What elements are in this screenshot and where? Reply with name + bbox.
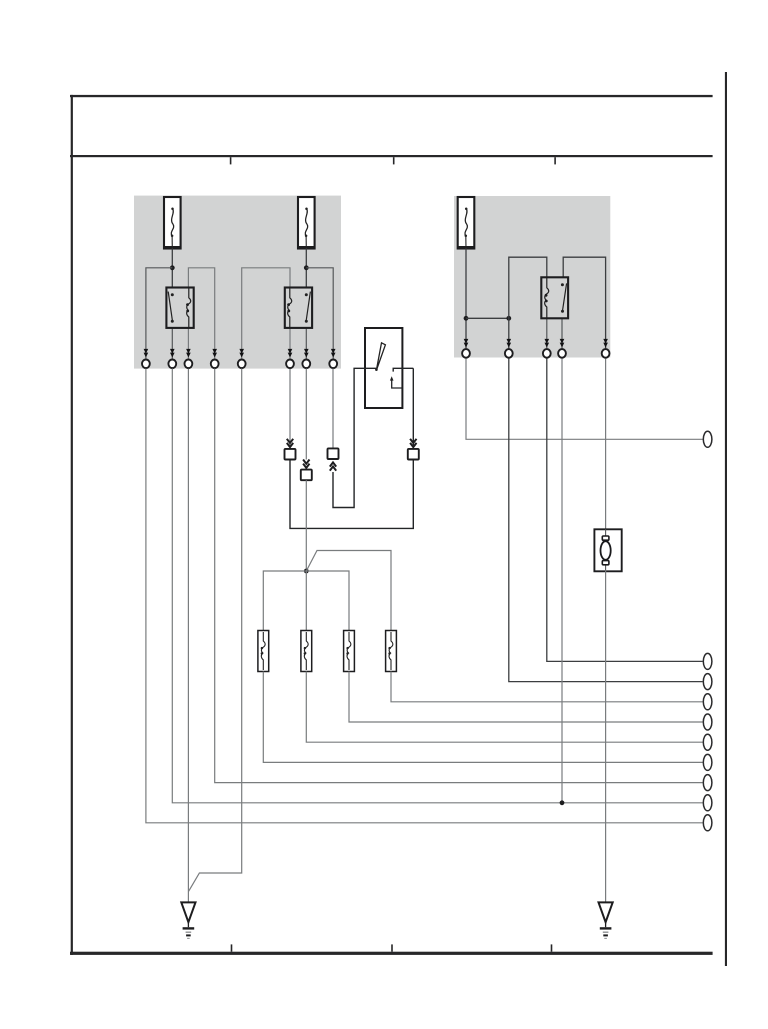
wire terminal 1 to output circle xyxy=(146,369,703,823)
wire node to solenoid 2 xyxy=(305,571,307,631)
wire terminal 4 to output circle xyxy=(215,369,703,783)
ground symbol left xyxy=(181,902,195,938)
wire switch contact to connector D xyxy=(412,368,414,449)
wire terminal 7 to connector B xyxy=(305,369,307,460)
wire terminal R3 to output circle xyxy=(547,359,703,662)
output circle 3 xyxy=(703,674,712,690)
output circle 10 xyxy=(703,815,712,831)
door lock solenoid 2 xyxy=(301,631,312,672)
node: R4 junction xyxy=(560,800,565,805)
terminal 7 xyxy=(302,360,310,369)
output circle 9 xyxy=(703,795,712,811)
terminal 8 xyxy=(329,360,337,369)
wire relay3 coil output to terminal R3 xyxy=(546,318,548,349)
door lock solenoid 3 xyxy=(344,631,355,672)
output circle 2 xyxy=(703,653,712,669)
inline connector B xyxy=(301,470,312,481)
node: F1 output junction xyxy=(170,265,175,270)
terminal 4 xyxy=(211,360,219,369)
output circle 1 xyxy=(703,431,712,447)
wire switch common exit xyxy=(333,368,376,507)
wire relay1 switch output to terminal 2 xyxy=(171,328,173,359)
node: F3 output junction xyxy=(464,316,469,321)
wire relay 3 contact feed to terminal R5 xyxy=(563,257,605,348)
inline connector D xyxy=(408,449,419,460)
wire terminal 8 to connector C xyxy=(332,369,334,449)
wire terminal R1 to output circle xyxy=(466,359,703,440)
wire terminal R4 joins terminal-2 line xyxy=(561,359,563,803)
wire relay1 coil feed from terminal 4 xyxy=(188,268,214,359)
terminal 5 xyxy=(238,360,246,369)
terminal chevrons left block xyxy=(144,349,149,358)
wire terminal 3 to ground xyxy=(187,369,189,902)
terminal 3 xyxy=(185,360,193,369)
output circle 7 xyxy=(703,754,712,770)
output circle 4 xyxy=(703,694,712,710)
wire connector B to distribution node xyxy=(305,480,307,571)
connector C chevron (pointing up) xyxy=(330,462,336,470)
fuse F2 xyxy=(298,197,315,249)
output circle 6 xyxy=(703,734,712,750)
terminal chevrons right block xyxy=(464,339,469,348)
wire F1 output to junction and relay 1 xyxy=(171,249,173,289)
wire solenoid 3 to output circle xyxy=(349,672,703,723)
wire terminal 5 to ground merge xyxy=(189,369,242,892)
terminal R4 xyxy=(558,349,566,358)
motor M xyxy=(594,529,621,571)
wire solenoid 1 to output circle xyxy=(263,672,702,763)
connector A chevron xyxy=(287,439,293,447)
relay 1 xyxy=(166,288,193,328)
connector B chevron xyxy=(303,460,309,468)
wire terminal 6 to connector A xyxy=(289,369,291,449)
wire terminal R5 to motor xyxy=(605,359,607,530)
wire node diagonal feed to solenoid 4 xyxy=(306,551,391,631)
connector D chevron xyxy=(410,439,416,447)
wire relay3 switch output to terminal R4 xyxy=(561,318,563,349)
node: F2 output junction xyxy=(304,265,309,270)
wire junction bus to relay feed riser xyxy=(466,317,509,319)
terminal 2 xyxy=(168,360,176,369)
wire F2 output down through relay 2 xyxy=(305,249,307,289)
inline connector C xyxy=(328,448,339,459)
wire solenoid 4 to output circle xyxy=(391,672,703,702)
wire junction to terminal 1 drop xyxy=(146,268,172,359)
wire relay1 coil output to terminal 3 xyxy=(187,328,189,359)
wire terminal R2 to output circle xyxy=(509,359,703,682)
inline connector A xyxy=(285,449,296,460)
shaded junction block (right) xyxy=(454,196,610,358)
terminal 1 xyxy=(142,360,150,369)
door lock solenoid 1 xyxy=(258,631,269,672)
wire distribution bus to solenoid 1 and 3 xyxy=(263,571,349,631)
relay 3 xyxy=(541,277,568,318)
wire relay2 coil feed from terminal 5 xyxy=(242,268,290,359)
wire relay2 coil output to terminal 6 xyxy=(289,328,291,359)
wire riser to relay 3 coil xyxy=(509,257,547,348)
wire motor to ground xyxy=(605,571,607,903)
terminal R2 xyxy=(505,349,513,358)
output circle 5 xyxy=(703,714,712,730)
terminal 6 xyxy=(286,360,294,369)
fuse F1 xyxy=(164,197,181,249)
output circle 8 xyxy=(703,775,712,791)
terminal R3 xyxy=(543,349,551,358)
door lock solenoid 4 xyxy=(386,631,397,672)
fuse F3 xyxy=(458,197,475,249)
wire junction to terminal 8 drop xyxy=(306,268,333,359)
wire F3 output to junction xyxy=(465,249,467,349)
wire connector D to connector A loop xyxy=(290,460,413,529)
wire relay2 switch output to terminal 7 xyxy=(305,328,307,359)
relay 2 xyxy=(285,288,312,328)
door lock control switch xyxy=(365,328,413,408)
wire terminal 2 to output circle xyxy=(172,369,702,803)
shaded junction block (left) xyxy=(134,196,341,369)
wire solenoid 2 to output circle xyxy=(306,672,702,743)
node: distribution junction xyxy=(304,569,309,574)
terminal R5 xyxy=(602,349,610,358)
node: riser junction xyxy=(506,316,511,321)
terminal R1 xyxy=(462,349,470,358)
ground symbol right xyxy=(599,902,613,938)
